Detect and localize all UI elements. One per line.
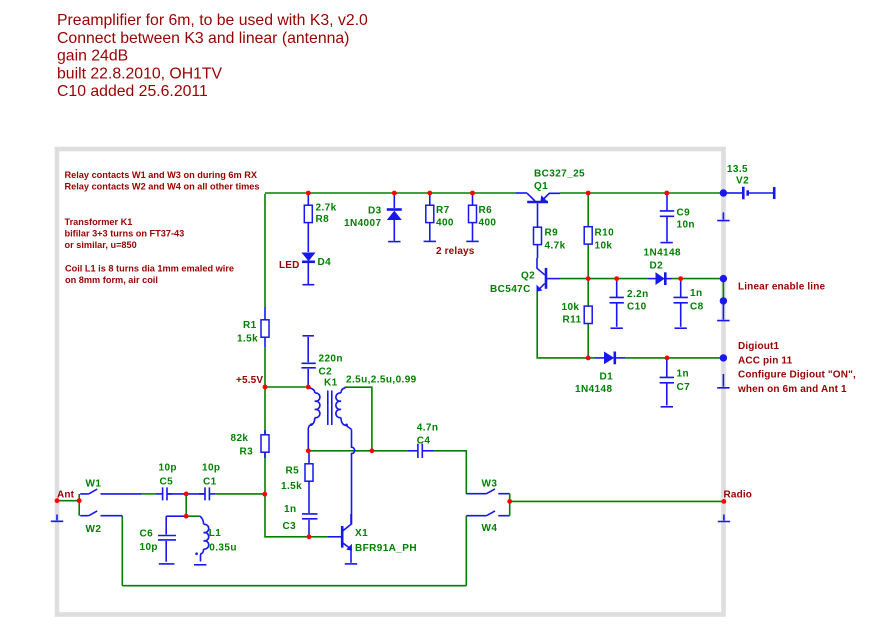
svg-text:4.7n: 4.7n (417, 422, 439, 433)
svg-text:BC327_25: BC327_25 (534, 169, 585, 180)
junction K1 top-right link (370, 448, 375, 453)
ground below X1 (345, 563, 357, 565)
svg-text:C6: C6 (140, 528, 154, 539)
svg-text:4.7k: 4.7k (545, 240, 566, 251)
junction W1-W2 split (77, 498, 82, 503)
schematic frame border (57, 149, 724, 615)
svg-text:R1: R1 (243, 320, 257, 331)
svg-text:Relay contacts W2 and W4 on al: Relay contacts W2 and W4 on all other ti… (65, 182, 260, 192)
svg-text:C2: C2 (319, 367, 333, 378)
ground below C9 (660, 242, 672, 244)
junction C5-C1 (184, 492, 189, 497)
svg-text:V2: V2 (736, 176, 749, 187)
relay contact W4 (466, 511, 509, 534)
svg-text:C5: C5 (160, 476, 174, 487)
svg-text:1N4148: 1N4148 (644, 247, 681, 258)
node Ant pad (55, 498, 60, 503)
ground below C8 (675, 327, 687, 329)
diode D2 (644, 247, 681, 285)
capacitor C9 (660, 194, 695, 242)
svg-text:D3: D3 (368, 206, 382, 217)
svg-text:W2: W2 (86, 524, 102, 535)
svg-text:Q2: Q2 (521, 271, 535, 282)
svg-text:+5.5V: +5.5V (236, 375, 263, 386)
junction R1-R3 / +5.5V rail (263, 385, 268, 390)
LED D4 (279, 253, 331, 285)
svg-text:W4: W4 (482, 523, 498, 534)
capacitor C6 (140, 516, 187, 562)
junction C3 / X1 base (307, 534, 312, 539)
wire C5 to C1 (167, 493, 205, 495)
relay contact W2 (80, 511, 122, 535)
relay contact W1 (80, 479, 142, 494)
svg-text:BC547C: BC547C (490, 284, 531, 295)
junction R10 / top rail (586, 191, 591, 196)
svg-text:400: 400 (479, 217, 497, 228)
resistor R1 (237, 307, 269, 347)
svg-text:Radio: Radio (724, 490, 753, 501)
wire junction to L1 (186, 515, 200, 517)
node Ant terminal (57, 490, 75, 501)
node Linear enable line terminal (720, 275, 727, 282)
svg-text:10k: 10k (562, 302, 580, 313)
svg-text:10p: 10p (202, 462, 220, 473)
svg-text:R10: R10 (595, 228, 615, 239)
svg-text:10k: 10k (595, 240, 613, 251)
svg-text:Relay contacts W1 and W3 on du: Relay contacts W1 and W3 on during 6m RX (65, 170, 258, 180)
svg-text:10n: 10n (677, 220, 695, 231)
resistor R8 (304, 194, 336, 252)
junction K1 left bottom (306, 448, 311, 453)
wire C1 junction down and to X1 base (265, 494, 328, 537)
junction C9 / top rail (664, 191, 669, 196)
svg-text:0.35u: 0.35u (209, 542, 237, 553)
inductor L1 (195, 516, 237, 561)
svg-text:1n: 1n (677, 368, 689, 379)
wire Ant to switches (57, 494, 79, 516)
capacitor C4 (408, 422, 438, 458)
junction R7 / top rail (427, 191, 432, 196)
capacitor C1 (199, 462, 220, 500)
ground below linear enable (717, 304, 729, 321)
svg-text:2 relays: 2 relays (436, 246, 475, 257)
svg-text:220n: 220n (319, 354, 343, 365)
svg-text:2.7k: 2.7k (316, 203, 337, 214)
wire Q2 base line (560, 278, 648, 280)
wire C4 to W3 (434, 451, 467, 494)
wire D2 to C8 node (672, 278, 723, 280)
svg-text:X1: X1 (355, 528, 368, 539)
svg-text:10p: 10p (140, 542, 158, 553)
capacitor C7 (660, 358, 691, 405)
wire R10 to base line (587, 244, 589, 278)
ground below L1 (194, 564, 206, 566)
svg-text:LED: LED (279, 260, 299, 271)
node Radio terminal (724, 490, 753, 501)
svg-text:on 8mm form, air coil: on 8mm form, air coil (65, 275, 158, 285)
wire W4 down to bottom run (465, 516, 467, 586)
wire R11 leads (587, 279, 589, 358)
transistor X1 BFR91A NPN (328, 514, 417, 563)
capacitor C5 (156, 462, 177, 500)
svg-text:W3: W3 (482, 478, 498, 489)
note: right side labels (737, 281, 856, 395)
junction C7 / digiout line (665, 356, 670, 361)
wire K1 right winding to X1 collector (hop over rail) (352, 430, 355, 525)
svg-text:400: 400 (436, 217, 454, 228)
svg-text:R6: R6 (479, 205, 493, 216)
svg-text:Configure Digiout "ON",: Configure Digiout "ON", (738, 370, 856, 381)
svg-text:D1: D1 (600, 371, 614, 382)
wire left column from rail to R1 (264, 194, 266, 307)
svg-text:Transformer K1: Transformer K1 (65, 217, 133, 227)
svg-text:D4: D4 (318, 257, 332, 268)
wire +5.5V rail (265, 386, 308, 388)
svg-text:R5: R5 (286, 465, 300, 476)
junction R11 / base line (586, 276, 591, 281)
ground below C6 (159, 563, 175, 565)
svg-text:1.5k: 1.5k (237, 333, 258, 344)
resistor R6 (469, 194, 497, 241)
svg-text:C4: C4 (417, 436, 431, 447)
svg-text:D2: D2 (650, 260, 664, 271)
resistor R5 (281, 452, 313, 513)
svg-text:C1: C1 (203, 476, 217, 487)
svg-text:1.5k: 1.5k (281, 481, 302, 492)
ground below C10 (611, 327, 623, 329)
note: relay contacts annotation (65, 170, 260, 192)
junction C2-K1 / +5.5V rail (306, 385, 311, 390)
junction D3 / top rail (392, 191, 397, 196)
svg-text:Coil L1 is 8 turns dia 1mm ema: Coil L1 is 8 turns dia 1mm emaled wire (65, 264, 234, 274)
svg-text:Linear enable line: Linear enable line (738, 281, 825, 292)
node Linear enable return terminal (720, 297, 727, 304)
svg-text:gain 24dB: gain 24dB (57, 48, 128, 65)
ground below C7 (661, 406, 673, 408)
wire Q2 emitter down and Digiout run (537, 292, 595, 358)
svg-text:R7: R7 (436, 205, 450, 216)
capacitor C10 (610, 279, 649, 327)
svg-text:1n: 1n (284, 504, 296, 515)
ground below Radio (718, 515, 730, 522)
junction R11 / digiout line (586, 356, 591, 361)
svg-text:ACC pin 11: ACC pin 11 (738, 355, 793, 366)
svg-text:C10: C10 (627, 302, 647, 313)
svg-text:Preamplifier for 6m, to be use: Preamplifier for 6m, to be used with K3,… (57, 12, 368, 29)
transistor Q1 BC327 PNP (516, 169, 585, 228)
svg-text:R3: R3 (240, 447, 254, 458)
wire D1 to C7 node and Digiout terminal (625, 357, 723, 359)
resistor R3 (231, 430, 270, 458)
svg-text:BFR91A_PH: BFR91A_PH (355, 543, 417, 554)
svg-text:C9: C9 (677, 208, 691, 219)
wire top supply rail (265, 192, 723, 194)
wire R3 to C1 junction (264, 452, 266, 494)
svg-text:L1: L1 (209, 528, 222, 539)
wire W3/W4 node to Radio (510, 500, 724, 502)
junction R8 / top rail (306, 191, 311, 196)
svg-text:or similar, u=850: or similar, u=850 (65, 240, 137, 250)
wire W2 to bottom run (121, 516, 123, 586)
svg-text:2.5u,2.5u,0.99: 2.5u,2.5u,0.99 (346, 375, 417, 386)
transformer K1 (308, 375, 416, 451)
svg-text:C10 added 25.6.2011: C10 added 25.6.2011 (57, 83, 208, 100)
wire W3/W4 common vertical (509, 494, 511, 516)
ground below R6 (466, 240, 478, 242)
svg-text:Ant: Ant (57, 490, 75, 501)
svg-text:2.2n: 2.2n (627, 289, 649, 300)
svg-text:W1: W1 (86, 479, 102, 490)
wire K1 top right link (345, 387, 372, 451)
svg-text:82k: 82k (231, 433, 249, 444)
diode D3 (344, 194, 402, 241)
ground below digiout (717, 374, 729, 388)
wire linear enable node pair (722, 279, 724, 301)
note: title block (57, 12, 368, 100)
note: coil L1 annotation (65, 264, 234, 286)
junction R6 / top rail (470, 191, 475, 196)
svg-text:R11: R11 (563, 315, 582, 326)
svg-text:when on 6m and Ant 1: when on 6m and Ant 1 (737, 384, 847, 395)
resistor R11 (562, 302, 593, 326)
junction W3-W4 common (507, 499, 512, 504)
wire +5.5V node down to R3 (264, 387, 266, 435)
wire C5/C1 junction down to C6/L1 (185, 494, 187, 516)
wire R10 column top (587, 193, 589, 226)
svg-text:1N4148: 1N4148 (575, 384, 612, 395)
svg-text:C7: C7 (677, 382, 691, 393)
svg-text:Digiout1: Digiout1 (738, 341, 779, 352)
svg-text:bifilar 3+3 turns on FT37-43: bifilar 3+3 turns on FT37-43 (65, 229, 185, 239)
transistor Q2 BC547C NPN (490, 258, 560, 295)
svg-text:C3: C3 (283, 521, 297, 532)
wire bottom long run (122, 585, 466, 587)
wire C1 to R3 junction (216, 493, 265, 495)
capacitor C8 (674, 279, 704, 327)
svg-text:C8: C8 (690, 302, 704, 313)
wire K1 bottom rail to C4 (308, 450, 408, 452)
svg-text:built 22.8.2010, OH1TV: built 22.8.2010, OH1TV (57, 65, 223, 82)
diode D1 (575, 352, 625, 396)
node Radio pad (722, 499, 727, 504)
ground below V2 (717, 212, 729, 220)
svg-text:K1: K1 (324, 378, 338, 389)
capacitor C3 (283, 504, 318, 537)
svg-text:1N4007: 1N4007 (344, 218, 381, 229)
battery V2 13.5V (727, 164, 774, 200)
resistor R7 (426, 194, 454, 241)
capacitor C2 (302, 336, 343, 387)
svg-text:Connect between K3 and linear: Connect between K3 and linear (antenna) (57, 30, 349, 47)
ground below Ant (51, 515, 63, 522)
node Digiout terminal (720, 354, 727, 361)
svg-text:R9: R9 (545, 228, 559, 239)
junction C8 / base line (678, 276, 683, 281)
relay contact W3 (466, 478, 509, 493)
junction C10 / base line (614, 276, 619, 281)
resistor R9 (534, 227, 566, 258)
ground below R7 (424, 240, 436, 242)
wire R1 to +5.5V node (264, 347, 266, 387)
svg-text:R8: R8 (316, 214, 330, 225)
svg-text:13.5: 13.5 (727, 164, 748, 175)
junction C1 / R3 column (262, 492, 267, 497)
note: transformer K1 annotation (65, 217, 185, 250)
junction C6-L1 (184, 514, 189, 519)
resistor R10 (584, 227, 614, 252)
ground below D3 (388, 241, 400, 243)
svg-text:10p: 10p (159, 462, 177, 473)
svg-text:1n: 1n (690, 288, 702, 299)
svg-text:Q1: Q1 (534, 181, 548, 192)
node 13.5V supply terminal (720, 189, 727, 196)
wire W1 to C5 (142, 493, 156, 495)
